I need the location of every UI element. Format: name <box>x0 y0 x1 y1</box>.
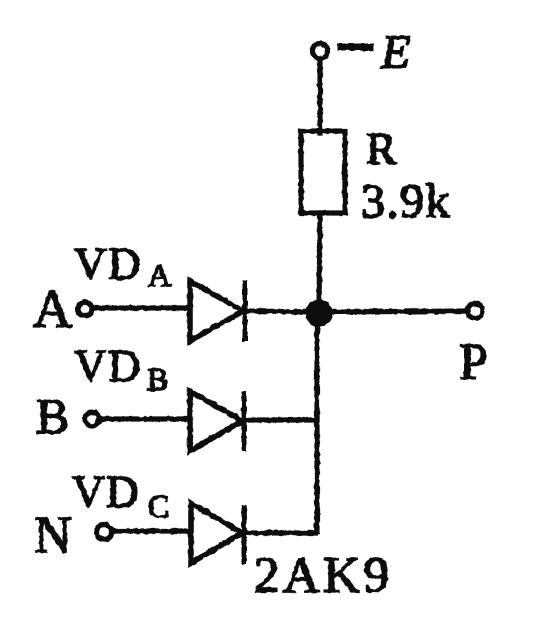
svg-text:VDB: VDB <box>74 341 170 397</box>
diode VDC triangle <box>191 503 242 563</box>
diode VDA triangle <box>190 281 243 341</box>
wire node down bus <box>314 321 319 531</box>
terminal A circle <box>78 302 92 316</box>
node junction dot <box>308 302 330 324</box>
terminal E circle <box>313 44 328 59</box>
wire N to diode VDC <box>112 528 189 533</box>
resistor R body <box>301 131 345 213</box>
svg-text:P: P <box>459 334 488 391</box>
wire A to diode VDA <box>92 305 188 310</box>
wire VDA to node <box>245 311 317 312</box>
wire VDC to bus corner <box>244 530 315 535</box>
terminal N circle <box>97 525 112 540</box>
wire node to P terminal <box>328 311 466 312</box>
svg-text:B: B <box>36 388 69 444</box>
terminal B circle <box>85 412 99 426</box>
wire B to diode VDB <box>99 416 188 421</box>
minus sign of -E <box>341 44 370 51</box>
diode VDA cathode bar <box>243 283 248 339</box>
wire VDB to bus <box>244 417 317 422</box>
svg-text:R: R <box>366 123 397 174</box>
wire resistor to node <box>319 213 320 313</box>
svg-text:E: E <box>380 26 410 79</box>
svg-text:3.9k: 3.9k <box>361 175 451 228</box>
svg-text:VDC: VDC <box>72 467 171 524</box>
wire E terminal to resistor <box>317 59 322 133</box>
diode VDB cathode bar <box>242 393 247 449</box>
svg-text:2AK9: 2AK9 <box>254 548 393 604</box>
svg-text:VDA: VDA <box>74 239 173 293</box>
svg-text:A: A <box>33 279 72 339</box>
diode VDB triangle <box>190 391 242 451</box>
terminal P circle <box>468 304 483 319</box>
diode VDC cathode bar <box>242 508 247 562</box>
svg-text:N: N <box>34 507 72 564</box>
